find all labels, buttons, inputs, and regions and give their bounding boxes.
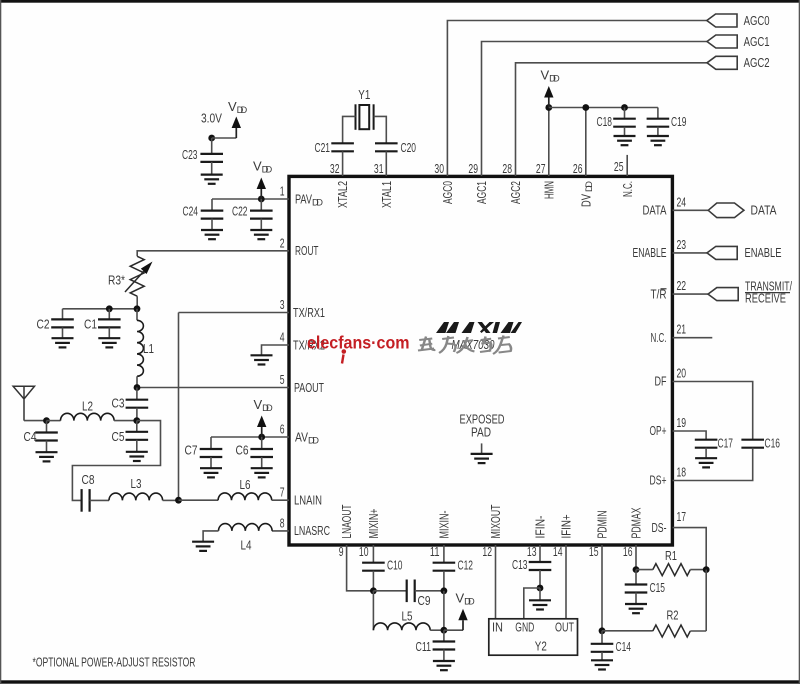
label VDD (pin 6) [254,397,273,413]
svg-text:Y2: Y2 [535,639,547,654]
wire C22 to ground [260,219,262,230]
wire pin 9 LNAOUT run [347,545,374,591]
svg-text:PDMAX: PDMAX [629,507,644,538]
wire pin 27 HMN to VDD rail [548,108,550,177]
svg-text:20: 20 [677,366,687,381]
svg-text:L4: L4 [241,538,252,553]
svg-text:C6: C6 [236,442,249,457]
wire pin 15 PDMIN run [601,545,603,631]
wire junction to C22 [260,199,262,211]
svg-text:IN: IN [492,620,503,635]
label C4 [24,429,37,444]
svg-text:AGC1: AGC1 [744,34,770,49]
wire junction to C18 [624,108,626,119]
wire L6 to pin 7 [272,499,289,501]
pin number 2 [280,235,285,250]
wire C17 to ground [705,448,707,459]
pin number 26 [573,161,583,176]
pin label AGC1 (pin) [474,181,489,204]
pin label AGC0 (pin) [440,181,455,204]
wire L3 to LNAIN node [163,499,179,501]
svg-text:6: 6 [280,422,285,437]
svg-text:XTAL2: XTAL2 [335,181,350,208]
pin number 7 [280,485,285,500]
capacitor C21 [331,143,354,151]
label R2 [667,608,679,623]
svg-text:15: 15 [589,544,599,559]
wire C5 node hook to C8 [72,421,160,501]
svg-text:C19: C19 [671,114,687,129]
label C22 [232,204,248,219]
label VDD (bottom) [456,590,475,606]
node DVDD junction [582,104,589,111]
label L4 [241,538,252,553]
wire C12 to node [443,571,445,591]
pin number 6 [280,422,285,437]
wire node to L2 [47,420,61,422]
svg-text:AGC0: AGC0 [440,181,455,204]
capacitor C23 [200,154,223,162]
node HMN VDD junction [545,104,552,111]
wire pin 11 MIXIN- to C12 [443,545,445,563]
capacitor C2 [51,319,74,327]
svg-text:21: 21 [677,322,687,337]
label C10 [387,558,403,573]
pin number 15 [589,544,599,559]
wire pin 10 MIXIN+ to C10 [372,545,374,563]
label C7 [185,442,198,457]
svg-text:GND: GND [515,620,534,635]
wire C16 to pin 18 DS+ [673,448,753,481]
ground below C23 [201,175,223,184]
label DATA (connector) [751,203,777,218]
svg-text:5: 5 [280,372,285,387]
pin label PDMAX [629,507,644,538]
ground below C11 [433,661,455,670]
capacitor C7 [200,449,223,457]
node L5/C11 junction [441,627,448,634]
pin label PDMIN [595,511,610,539]
connector AGC0 [707,14,737,27]
wire C18 to ground [624,127,626,136]
label VDD (top rail) [541,68,560,84]
wire antenna to node [24,420,47,422]
wire R2 to DS- bus [690,630,706,632]
pin label LNASRC [294,523,330,538]
node MIXIN+ junction [370,587,377,594]
wire PAOUT node to C3 [136,388,138,400]
capacitor C14 [591,644,614,652]
svg-text:AGC2: AGC2 [508,181,523,204]
wire node to C11 [443,630,445,641]
wire C24 to ground [211,219,213,230]
svg-text:OP+: OP+ [650,423,667,438]
watermark chinese characters 电子发烧友 [418,336,511,355]
wire Y1 left to C21 [343,116,356,143]
connector AGC1 [707,35,737,48]
svg-text:1: 1 [280,184,285,199]
wire node to R2 [602,630,653,632]
svg-text:18: 18 [677,465,687,480]
svg-text:9: 9 [339,544,344,559]
svg-text:R2: R2 [667,608,679,623]
wire LNAIN node to L6 [179,499,219,501]
capacitor C4 [35,433,58,441]
svg-text:C14: C14 [616,639,632,654]
label L3 [131,476,142,491]
wire pin 4 TX/RX2 [262,345,290,355]
pin number 24 [677,194,687,209]
wire C4 to ground [46,441,48,453]
logo MAXIM [436,322,522,333]
label C24 [183,204,199,219]
wire C5 to ground [136,440,138,452]
filter Y2 box [489,619,578,655]
svg-text:C7: C7 [185,442,198,457]
wire MIXIN+ node down to L5 [372,591,374,630]
label C11 [416,639,432,654]
pin number 16 [623,544,633,559]
label OUT (Y2) [555,620,574,635]
wire exposed pad to ground [481,443,483,454]
wire C13 to node [539,570,541,588]
exposed pad label [460,412,505,440]
svg-text:10: 10 [359,544,369,559]
pin label IFIN- [533,516,548,539]
pin number 5 [280,372,285,387]
capacitor C16 [741,440,764,448]
svg-text:C24: C24 [183,204,199,219]
wire DS- bus down to R2 [705,570,707,631]
ground below C17 [695,458,717,467]
pin number 31 [374,161,384,176]
label L1 [143,341,154,356]
svg-text:AGC2: AGC2 [744,55,770,70]
svg-text:DS+: DS+ [650,473,667,488]
svg-text:DV: DV [578,194,593,207]
wire node to C5 [136,421,138,432]
svg-text:C2: C2 [37,316,50,331]
svg-text:C18: C18 [597,114,613,129]
svg-text:DD: DD [584,181,594,192]
svg-text:OUT: OUT [555,620,574,635]
label Y1 [358,87,370,102]
wire C9 to MIXIN- node [415,590,444,592]
pin label DF [655,374,667,389]
svg-text:30: 30 [434,161,444,176]
antenna [13,386,34,420]
capacitor C15 [625,585,648,593]
svg-text:13: 13 [527,544,537,559]
capacitor C6 [250,449,273,457]
svg-text:LNASRC: LNASRC [294,523,330,538]
svg-text:R1: R1 [665,548,677,563]
ground below C18 [614,136,636,145]
wire C8 to L3 [90,499,109,501]
ground below C13 [529,600,551,609]
label C18 [597,114,613,129]
wire C23 to ground [211,162,213,175]
pin label LNAIN [294,492,322,507]
capacitor C3 [126,400,149,408]
svg-text:2: 2 [280,235,285,250]
pin label TX/RX2 [293,338,325,353]
svg-text:N.C.: N.C. [620,181,635,197]
capacitor C24 [201,211,224,219]
pin number 1 [280,184,285,199]
svg-text:C13: C13 [512,557,528,572]
wire C2/C1 node rail [63,308,138,310]
svg-text:23: 23 [677,237,687,252]
ground below C7 [200,468,222,477]
wire pin 25 N.C. stub [626,155,628,176]
label GND (Y2) [515,620,534,635]
pin number 14 [553,544,563,559]
pin label OP+ [650,423,667,438]
pin label MIXIN+ [366,509,381,539]
resistor R1 [653,564,691,576]
svg-text:7: 7 [280,485,285,500]
capacitor C22 [250,211,273,219]
svg-text:IFIN+: IFIN+ [559,515,574,539]
ground below C15 [625,604,647,613]
svg-text:PAD: PAD [471,425,491,440]
svg-text:elecfans·com: elecfans·com [307,332,410,352]
svg-text:PDMIN: PDMIN [595,511,610,539]
pin number 10 [359,544,369,559]
wire pin 16 PDMAX stub [635,545,637,570]
pin number 19 [677,415,687,430]
wire C2 to ground [62,327,64,338]
inductor L3 [109,493,163,500]
svg-text:27: 27 [536,161,546,176]
svg-text:C17: C17 [718,436,734,451]
pin number 28 [502,161,512,176]
ground below C22 [250,230,272,239]
wire pin 26 DVDD [585,108,587,177]
ground below C24 [201,230,223,239]
pin label HMN [541,181,556,199]
label C17 [718,436,734,451]
svg-text:ROUT: ROUT [295,243,319,258]
wire pin 3 TX/RX1 [179,312,290,314]
inductor L4 [219,524,273,531]
wire pin 14 IFIN+ to Y2 [565,545,567,619]
border frame top [0,0,800,3]
svg-text:C15: C15 [650,580,666,595]
power VDD arrow (bottom) [458,609,467,631]
wire pin 20 DF run [673,382,753,440]
pin label XTAL2 [335,181,350,208]
label C8 [82,472,95,487]
pin label DS+ [650,473,667,488]
connector ENABLE [707,246,737,259]
svg-text:IFIN-: IFIN- [533,516,548,539]
label C15 [650,580,666,595]
label C9 [418,593,431,608]
pin label AVDD [295,429,319,445]
ground below C1 [98,338,120,347]
label C2 [37,316,50,331]
node C18 junction [621,104,628,111]
wire pin 13 IFIN- to C13 [539,545,541,562]
label R3* [108,273,125,288]
wire junction to C1 [108,309,110,320]
wire C15 to ground [635,593,637,605]
node R3/L1 junction [134,305,141,312]
capacitor C1 [98,319,121,327]
power VDD arrow (top rail) [544,86,553,108]
svg-text:C1: C1 [84,316,97,331]
svg-text:C23: C23 [182,147,198,162]
node IFIN-/GND junction [537,585,544,592]
wire pin 28 AGC2 run [516,63,708,176]
label VDD (3.0V node) [228,99,247,115]
svg-text:C20: C20 [401,140,417,155]
capacitor C13 [529,562,552,570]
label C12 [458,558,474,573]
label C5 [112,429,125,444]
power VDD arrow (3.0V node) [232,117,241,139]
svg-text:17: 17 [677,509,687,524]
svg-text:C9: C9 [418,593,431,608]
label C14 [616,639,632,654]
pin number 3 [280,297,285,312]
power VDD arrow (pin 1) [257,178,266,200]
svg-text:PAOUT: PAOUT [294,380,324,395]
svg-text:29: 29 [468,161,478,176]
capacitor C8 [82,489,90,512]
svg-text:L5: L5 [402,608,413,623]
inductor L2 [61,413,115,420]
inductor L5 [373,623,430,630]
pin label DS- [652,520,667,535]
wire L2 to C5 node [114,420,137,422]
svg-text:ENABLE: ENABLE [633,245,667,260]
capacitor C5 [126,432,149,440]
wire C1 to ground [108,327,110,338]
capacitor C9 [407,580,415,603]
label C21 [315,140,331,155]
ground below C14 [591,660,613,669]
connector DATA (bidirectional) [708,203,744,218]
wire rail to C2 [62,309,64,320]
label IN (Y2) [492,620,503,635]
wire pin 1 PAVDD rail [212,198,289,200]
node DS- bus junction [703,566,710,573]
connector TRANSMIT/RECEIVE [708,288,738,301]
wire pin 2 ROUT [137,251,289,256]
svg-text:24: 24 [677,194,687,209]
wire C6 to ground [261,457,263,468]
pin label LNAOUT [339,504,354,538]
label L6 [240,477,251,492]
inductor L1 [137,320,143,376]
svg-text:DF: DF [655,374,667,389]
svg-text:26: 26 [573,161,583,176]
node LNAIN junction [175,497,182,504]
pin label IFIN+ [559,515,574,539]
label C19 [671,114,687,129]
svg-text:11: 11 [430,544,440,559]
pin label T/R [651,286,667,301]
pin label DATA [643,203,667,218]
pin number 22 [677,278,687,293]
label C13 [512,557,528,572]
wire pin 21 N.C. stub [673,337,713,339]
wire rail to C7 [210,437,212,449]
connector AGC2 [707,56,737,69]
node C1 junction [106,305,113,312]
pin number 30 [434,161,444,176]
node MIXIN- junction [441,587,448,594]
pin number 21 [677,322,687,337]
pin number 23 [677,237,687,252]
svg-text:TX/RX1: TX/RX1 [293,305,325,320]
wire pin 24 DATA [673,209,709,211]
wire node to C9 [373,590,406,592]
node PDMIN junction [599,627,606,634]
wire node to R1 [636,569,653,571]
wire MIXIN- node down [443,591,445,630]
label TRANSMIT/RECEIVE (connector) [745,278,792,305]
wire C19 to ground [657,127,659,136]
pin label ENABLE [633,245,667,260]
ground below C19 [647,136,669,145]
capacitor C18 [613,119,636,127]
svg-text:3: 3 [280,297,285,312]
svg-text:C11: C11 [416,639,432,654]
inductor L6 [218,493,272,500]
wire L1 to PAOUT node [136,376,138,387]
capacitor C11 [433,642,456,650]
wire pin 22 T/R [673,293,709,295]
svg-text:12: 12 [482,544,492,559]
label L5 [402,608,413,623]
wire 3.0V node to C23 [211,138,213,154]
watermark elecfans.com [307,332,410,363]
wire pin 23 ENABLE [673,252,708,254]
pin number 27 [536,161,546,176]
svg-text:C3: C3 [112,395,125,410]
pin number 13 [527,544,537,559]
capacitor C20 [375,143,398,151]
pin number 18 [677,465,687,480]
label MAX7030 [452,337,496,352]
wire rail to C24 [211,199,213,211]
node PAVDD junction [258,196,265,203]
ground below C6 [251,468,273,477]
wire C21 to pin 32 [342,151,344,176]
label C16 [765,436,781,451]
node C5 junction [133,417,140,424]
ground below C2 [52,338,74,347]
power VDD arrow (pin 6) [257,416,266,438]
svg-text:*OPTIONAL POWER-ADJUST RESISTO: *OPTIONAL POWER-ADJUST RESISTOR [33,655,196,670]
ground exposed pad [471,454,493,463]
svg-text:L6: L6 [240,477,251,492]
svg-text:C12: C12 [458,558,474,573]
wire node to C15 [635,570,637,585]
pin number 32 [330,161,340,176]
border frame left [0,0,1,684]
label C23 [182,147,198,162]
wire C7 to ground [210,457,212,468]
pin label N.C. (21) [651,330,667,345]
label C1 [84,316,97,331]
label L2 [82,398,93,413]
pin number 29 [468,161,478,176]
